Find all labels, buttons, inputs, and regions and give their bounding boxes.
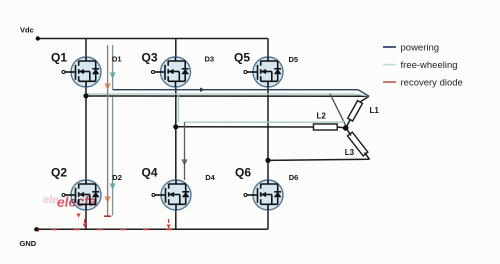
svg-text:D3: D3 (205, 55, 215, 64)
free-wheeling arrow D4 (182, 160, 186, 165)
svg-text:Vdc: Vdc (20, 26, 34, 35)
recovery arrow top (105, 84, 109, 89)
svg-text:D5: D5 (289, 55, 299, 64)
transistor Q5 (244, 57, 283, 87)
leg 2 vertical (Q3/Q4) (175, 39, 177, 230)
red dashed vertical at Q2 leg (84, 219, 86, 223)
free-wheeling diagonal left of L1 (330, 94, 346, 127)
svg-text:Q3: Q3 (142, 51, 158, 65)
svg-text:D6: D6 (289, 173, 299, 182)
node C (Q5/Q6 midpoint) (265, 158, 270, 163)
transistor Q6 (244, 180, 283, 210)
free-wheeling line along L2 (185, 120, 345, 123)
L3 leads (346, 128, 369, 159)
transistor Q2 (62, 180, 101, 210)
red arrow left end (34, 227, 40, 231)
svg-text:free-wheeling: free-wheeling (401, 60, 458, 71)
red dashed along GND rail (38, 229, 172, 231)
wire phase A to L1 (86, 95, 369, 97)
svg-text:D2: D2 (112, 173, 122, 182)
svg-text:Q6: Q6 (235, 166, 251, 180)
legend recovery swatch (383, 81, 396, 83)
svg-text:L3: L3 (345, 148, 355, 157)
node star (neutral) (343, 125, 349, 131)
L1 leads (346, 96, 369, 127)
recovery arrow bottom (105, 197, 109, 202)
svg-text:powering: powering (401, 43, 440, 54)
svg-text:ele: ele (43, 194, 58, 206)
inductor L1 (348, 101, 363, 121)
D1 branch line (teal grey) (112, 45, 114, 216)
powering arrow (200, 87, 205, 92)
svg-text:Q4: Q4 (142, 166, 158, 180)
svg-text:Q1: Q1 (51, 51, 67, 65)
free-wheeling vertical at node B (177, 96, 179, 123)
node GND terminal (34, 227, 38, 231)
powering horizontal (113, 90, 369, 97)
recovery end bar (104, 215, 111, 217)
transistor Q1 (62, 57, 101, 87)
svg-text:Q2: Q2 (51, 166, 67, 180)
GND bottom rail (36, 228, 268, 230)
svg-text:D4: D4 (205, 173, 215, 182)
red arrow Q4 leg (167, 225, 171, 229)
leg 1 vertical (Q1/Q2) (85, 39, 87, 230)
free-wheeling line phase A (86, 94, 369, 96)
svg-text:elecfa: elecfa (57, 193, 97, 210)
free-wheeling arrow D1 (110, 73, 114, 78)
node A (Q1/Q2 midpoint) (83, 93, 88, 98)
svg-text:GND: GND (20, 239, 37, 248)
free-wheeling arrow D2 line (110, 184, 114, 189)
Vdc top rail (38, 38, 268, 40)
recovery line D1/D2 (107, 45, 109, 216)
svg-text:L1: L1 (370, 106, 380, 115)
transistor Q3 (152, 57, 191, 87)
legend free-wheeling swatch (383, 64, 396, 66)
D4 branch vertical (184, 122, 186, 180)
svg-text:L2: L2 (317, 112, 327, 121)
node B (Q3/Q4 midpoint) (173, 124, 178, 129)
wire L2 right lead (337, 127, 346, 128)
wire phase C horizontal (268, 159, 370, 160)
leg 3 vertical (Q5/Q6) (267, 39, 269, 230)
inductor L3 (348, 132, 368, 156)
svg-text:recovery diode: recovery diode (401, 78, 463, 89)
node Vdc terminal (36, 36, 40, 40)
red arrow Q2 leg lower (83, 224, 87, 228)
legend powering swatch (383, 46, 396, 48)
svg-text:Q5: Q5 (234, 51, 250, 65)
red arrow Q2 leg (77, 214, 81, 218)
inductor L2 (314, 124, 338, 130)
transistor Q4 (152, 180, 191, 210)
red dashed vertical at Q4 leg (168, 219, 170, 228)
wire phase B to L2 (176, 126, 314, 128)
svg-text:D1: D1 (112, 55, 122, 64)
